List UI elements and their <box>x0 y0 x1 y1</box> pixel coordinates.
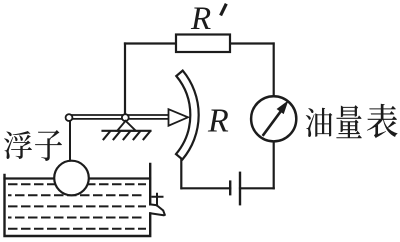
wire battery right horizontal <box>240 187 274 189</box>
resistor R' <box>176 35 230 53</box>
label text 量 <box>336 105 362 138</box>
label text 子 <box>35 130 62 161</box>
label text 表 <box>367 104 398 138</box>
wire top-left horizontal <box>125 42 176 44</box>
pivot joint circle <box>122 114 129 121</box>
oil tank liquid surface line <box>5 177 151 179</box>
drain tap handle <box>153 194 163 206</box>
oil tank walls <box>5 164 151 236</box>
pivot support triangle <box>117 121 136 131</box>
svg-text:R: R <box>207 103 229 140</box>
wire right vertical (to meter top) <box>273 44 275 97</box>
ground hatch line <box>103 130 151 132</box>
label text 油 <box>306 108 333 137</box>
wiper arrow head <box>169 109 189 126</box>
wire battery left horizontal <box>182 187 231 189</box>
drain tap spout <box>150 204 165 215</box>
float connecting rod <box>69 121 71 162</box>
lever shaft (double line) <box>70 115 170 119</box>
liquid dashed lines <box>9 183 145 185</box>
meter needle <box>263 111 281 135</box>
float ball <box>54 161 89 196</box>
battery negative plate (short) <box>229 182 231 195</box>
label text 浮 <box>4 131 32 159</box>
wire rheostat bottom vertical <box>180 159 182 188</box>
wire top-right horizontal <box>230 42 274 44</box>
svg-text:R: R <box>190 1 211 37</box>
ground hatch ticks <box>104 132 151 140</box>
meter M circle <box>251 96 296 141</box>
wire left vertical (to wiper pivot) <box>124 44 126 115</box>
rheostat R curved resistance band <box>176 71 199 160</box>
wire meter bottom to battery node <box>273 142 275 189</box>
battery positive plate (long) <box>239 173 241 204</box>
lever left joint circle <box>66 114 73 121</box>
